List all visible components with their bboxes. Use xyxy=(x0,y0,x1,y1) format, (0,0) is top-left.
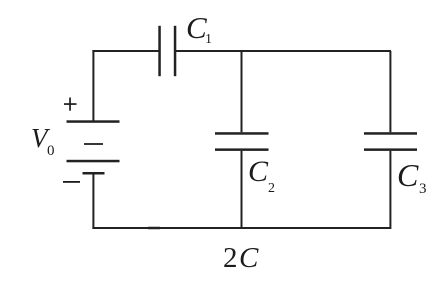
wire left branch upper xyxy=(92,50,94,122)
svg-text:C: C xyxy=(239,242,259,274)
wire right branch lower xyxy=(389,151,391,229)
wire right branch upper xyxy=(389,51,391,132)
svg-text:0: 0 xyxy=(47,143,55,159)
svg-text:C: C xyxy=(186,10,207,45)
svg-text:2: 2 xyxy=(223,242,238,274)
svg-text:C: C xyxy=(248,155,269,188)
label + polarity xyxy=(64,98,77,111)
battery V0 plate D short xyxy=(83,172,105,175)
battery V0 plate A long xyxy=(67,120,120,123)
capacitor C2 xyxy=(215,132,269,135)
capacitor C3 xyxy=(364,132,417,135)
wire bottom rail thick spot xyxy=(148,227,160,230)
svg-text:3: 3 xyxy=(419,181,427,197)
wire top rail right segment xyxy=(175,50,391,52)
label - polarity xyxy=(63,181,80,183)
svg-text:1: 1 xyxy=(205,32,212,47)
battery V0 plate B short xyxy=(84,143,103,145)
battery V0 plate C long xyxy=(67,160,120,163)
wire bottom rail xyxy=(92,227,391,229)
svg-text:2: 2 xyxy=(268,181,275,196)
wire middle branch upper xyxy=(241,51,243,132)
svg-text:C: C xyxy=(397,157,419,193)
capacitor C1 xyxy=(158,26,161,76)
wire middle branch lower xyxy=(241,151,243,229)
wire top rail left segment xyxy=(92,50,159,52)
wire left branch lower xyxy=(92,174,94,229)
